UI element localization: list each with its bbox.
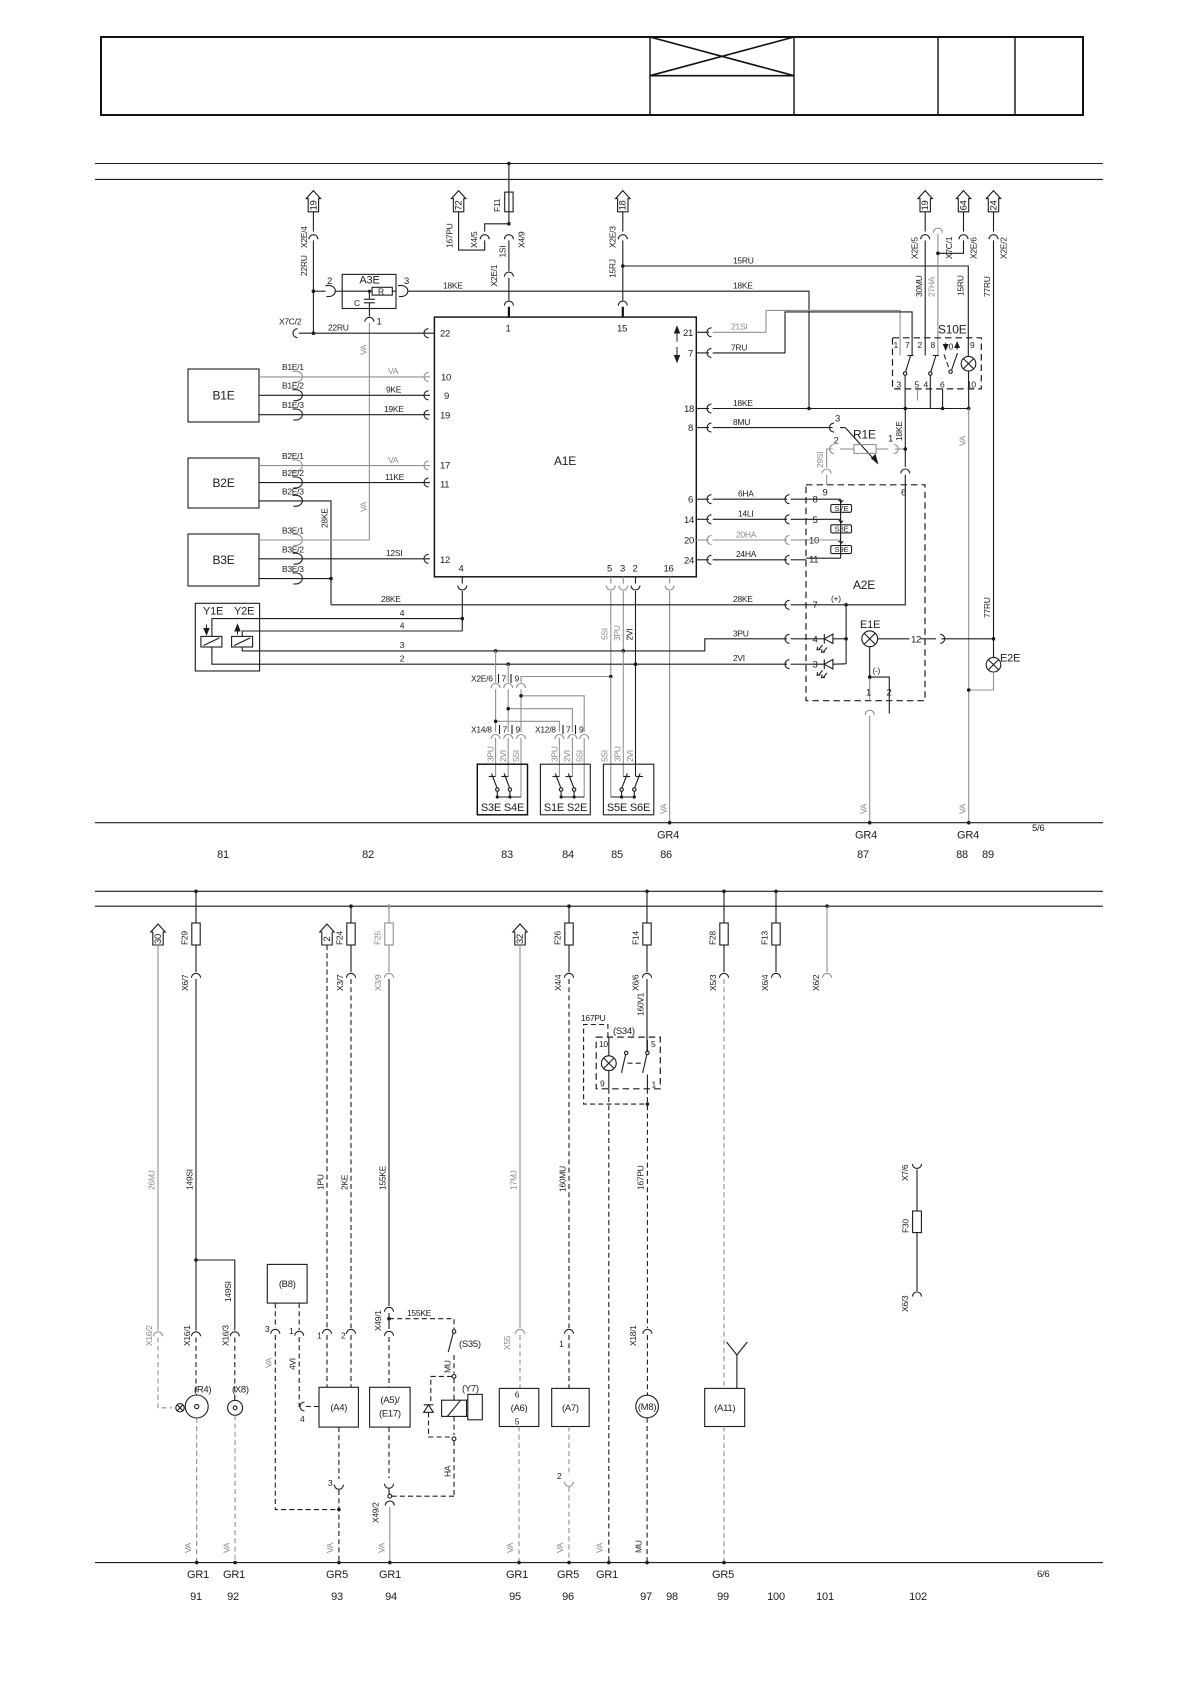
svg-text:VA: VA (377, 1542, 387, 1553)
control unit A5/E17 (370, 1387, 411, 1427)
wire 155KE (378, 979, 390, 1306)
svg-text:MU: MU (443, 1360, 453, 1373)
svg-text:S7E: S7E (835, 504, 849, 513)
svg-text:X6/7: X6/7 (180, 974, 190, 991)
control unit A7 (552, 1388, 590, 1426)
svg-text:X4/5: X4/5 (469, 231, 479, 248)
svg-text:15: 15 (617, 324, 627, 335)
svg-text:X49/2: X49/2 (371, 1502, 381, 1523)
svg-text:87: 87 (857, 849, 869, 861)
svg-text:GR1: GR1 (187, 1569, 209, 1581)
svg-text:MU: MU (634, 1540, 644, 1553)
svg-text:1: 1 (289, 1326, 294, 1336)
svg-text:7: 7 (566, 725, 571, 735)
svg-text:30MU: 30MU (914, 275, 924, 297)
top supply rail 1 (95, 163, 1103, 165)
svg-text:9: 9 (444, 391, 449, 402)
svg-text:S9E: S9E (835, 545, 849, 554)
wire X2E/5 30MU to S10E pin 2 (910, 212, 930, 356)
svg-text:8MU: 8MU (733, 417, 750, 427)
switch S2E contact (566, 774, 576, 798)
A1E pin 21 with arrow (675, 327, 712, 342)
svg-text:(-): (-) (873, 666, 881, 676)
svg-text:X12/8: X12/8 (535, 725, 556, 735)
svg-text:X4/4: X4/4 (553, 974, 563, 991)
wire 17MJ to A6 (502, 945, 525, 1388)
A1E pin 18 (684, 404, 712, 415)
control unit A11 (705, 1388, 745, 1426)
potentiometer R1E (830, 414, 906, 464)
svg-text:GR5: GR5 (712, 1569, 734, 1581)
sensor B1E (188, 369, 259, 422)
svg-text:B1E/2: B1E/2 (282, 381, 304, 391)
svg-text:11: 11 (440, 480, 449, 491)
svg-text:3: 3 (835, 414, 840, 425)
svg-text:X7C/1: X7C/1 (944, 236, 954, 259)
wire B2E/3 28KE down (259, 486, 331, 604)
svg-text:E1E: E1E (860, 619, 880, 631)
Y7 bottom node (452, 1437, 456, 1441)
svg-text:0: 0 (949, 342, 954, 352)
svg-text:77RU: 77RU (982, 597, 992, 618)
B8 pin 1 stub to A4 pin 4 (288, 1303, 304, 1406)
svg-text:167PU: 167PU (445, 223, 455, 248)
svg-text:77RU: 77RU (982, 276, 992, 297)
wire B2E/2 11KE to pin 11 (259, 468, 430, 488)
resistor R inside A3E (342, 287, 396, 297)
title block frame (101, 37, 1083, 115)
svg-text:X16/2: X16/2 (144, 1325, 154, 1346)
svg-text:83: 83 (501, 849, 513, 861)
svg-text:1: 1 (559, 1339, 564, 1349)
svg-text:29SI: 29SI (815, 452, 825, 468)
diode across Y7 (424, 1376, 452, 1437)
svg-text:5SI: 5SI (511, 750, 521, 762)
wire HA down to X49/2 node (391, 1441, 454, 1497)
svg-text:R: R (378, 287, 384, 297)
fuse F30 column (900, 1164, 922, 1312)
wire 18KE vertical to A2E pin 6 (894, 409, 910, 485)
svg-text:2VI: 2VI (625, 750, 635, 762)
connector X2E/6 labels (471, 674, 520, 684)
svg-text:5: 5 (651, 1039, 656, 1049)
svg-text:F30: F30 (901, 1219, 911, 1233)
svg-text:15RU: 15RU (733, 256, 754, 266)
svg-text:2VI: 2VI (498, 750, 508, 762)
svg-text:93: 93 (331, 1591, 343, 1603)
svg-text:6: 6 (940, 379, 945, 389)
svg-text:B2E: B2E (212, 476, 234, 490)
svg-text:3PU: 3PU (612, 625, 622, 641)
control unit A6 (499, 1388, 539, 1426)
capacitor C inside A3E (354, 290, 375, 317)
svg-text:3: 3 (813, 659, 818, 670)
svg-text:96: 96 (562, 1591, 574, 1603)
svg-text:155KE: 155KE (407, 1308, 432, 1318)
wire to A1E pin 1 (508, 278, 510, 300)
svg-text:(Y7): (Y7) (462, 1384, 479, 1395)
wire 18KE from A3E to right (408, 291, 809, 408)
A1E pin 16 bottom / wire VA (659, 564, 675, 823)
svg-text:22RU: 22RU (328, 323, 349, 333)
svg-text:4: 4 (300, 1414, 305, 1424)
svg-text:B1E: B1E (212, 389, 234, 403)
A2E pin 4 LED (806, 634, 846, 652)
svg-text:S10E: S10E (938, 323, 967, 337)
wire X6/2 (811, 904, 832, 991)
svg-text:88: 88 (956, 849, 968, 861)
A1E pin 2 bottom / wire 2VI (625, 564, 641, 665)
svg-text:92: 92 (227, 1591, 239, 1603)
svg-text:X2E/3: X2E/3 (608, 226, 618, 248)
earth rail section 5/6 (95, 822, 1103, 824)
thermal switch S8E (831, 520, 852, 534)
svg-text:100: 100 (767, 1591, 785, 1603)
A1E pin 20 (684, 536, 712, 547)
junction A3E pin2 branch (312, 289, 316, 293)
ECU A1E (434, 317, 696, 577)
svg-text:VA: VA (264, 1357, 274, 1368)
svg-text:2: 2 (322, 936, 333, 941)
S5E/S6E common bar (611, 795, 636, 798)
connector X3/9 (373, 973, 394, 991)
lamp E1E (860, 619, 880, 647)
A1E pin 7 with arrow (675, 347, 712, 362)
svg-text:5/6: 5/6 (1032, 823, 1044, 834)
svg-text:14LI: 14LI (738, 509, 753, 519)
wire 4 (Y1E top) (212, 608, 462, 636)
svg-text:F14: F14 (631, 931, 641, 945)
svg-text:3: 3 (620, 564, 625, 575)
wire B3E/3 to 28KE vertical (259, 564, 333, 584)
A6 earth wire (505, 1427, 519, 1563)
svg-text:4VI: 4VI (288, 1358, 298, 1370)
svg-text:19KE: 19KE (384, 404, 404, 414)
wire dashed to R4 (195, 1338, 197, 1396)
page arrow 72 (451, 191, 465, 212)
svg-text:2: 2 (834, 436, 839, 447)
svg-text:X5/3: X5/3 (708, 974, 718, 991)
svg-text:A3E: A3E (359, 275, 379, 287)
svg-text:4: 4 (400, 608, 405, 618)
svg-text:18: 18 (684, 404, 694, 415)
svg-text:C: C (354, 298, 360, 308)
svg-text:3PU: 3PU (550, 746, 560, 762)
svg-text:1: 1 (894, 340, 899, 350)
svg-text:GR4: GR4 (957, 830, 979, 842)
svg-text:2KE: 2KE (340, 1174, 350, 1190)
top supply rail 2 (95, 178, 1103, 180)
A1E pin 3 bottom / wire 3PU (612, 564, 628, 652)
svg-text:4: 4 (813, 634, 818, 645)
svg-text:(S35): (S35) (459, 1339, 481, 1350)
S10E top pin labels (894, 340, 976, 350)
svg-text:10: 10 (809, 536, 819, 547)
current path numbers 81-89 (217, 849, 994, 861)
svg-text:5: 5 (813, 515, 818, 526)
junction below S34 (646, 1102, 650, 1106)
svg-text:19: 19 (920, 201, 931, 211)
svg-text:3PU: 3PU (733, 628, 749, 638)
svg-text:167PU: 167PU (636, 1165, 646, 1190)
earth junction dots (195, 1561, 726, 1565)
svg-text:1: 1 (506, 324, 511, 335)
svg-text:5SI: 5SI (600, 750, 610, 762)
fuse F13 (760, 890, 781, 973)
section 6/6 supply rail 1 (95, 890, 1103, 892)
svg-text:4: 4 (924, 379, 929, 389)
svg-text:S3E S4E: S3E S4E (481, 802, 524, 814)
svg-text:2: 2 (327, 276, 332, 287)
wire 5SI into S5E/S6E (610, 677, 612, 798)
svg-text:6HA: 6HA (738, 489, 754, 499)
svg-text:X49/1: X49/1 (373, 1310, 383, 1331)
svg-text:(R4): (R4) (194, 1385, 211, 1396)
svg-text:X2E/6: X2E/6 (471, 674, 493, 684)
svg-text:Y2E: Y2E (234, 606, 254, 618)
wire labels third group (600, 746, 636, 762)
E1E minus node pins 1 2 (866, 647, 892, 701)
svg-text:9: 9 (516, 725, 521, 735)
svg-text:28KE: 28KE (320, 508, 330, 528)
svg-text:2: 2 (633, 564, 638, 575)
connector X7C/1 (933, 228, 954, 259)
svg-text:F25: F25 (373, 931, 383, 945)
valve Y2E coil (232, 625, 253, 648)
svg-text:B3E/3: B3E/3 (282, 564, 304, 574)
svg-text:4: 4 (400, 620, 405, 630)
svg-text:VA: VA (388, 366, 399, 376)
wire B3E/1 to VA vertical (259, 526, 369, 546)
svg-text:1: 1 (317, 1331, 322, 1341)
svg-text:81: 81 (217, 849, 229, 861)
svg-text:2VI: 2VI (733, 653, 745, 663)
svg-text:2: 2 (918, 340, 923, 350)
svg-text:20: 20 (684, 536, 694, 547)
svg-text:160MU: 160MU (558, 1166, 568, 1192)
svg-text:B2E/1: B2E/1 (282, 451, 304, 461)
svg-text:12: 12 (911, 634, 921, 645)
svg-text:X16/1: X16/1 (182, 1325, 192, 1346)
svg-text:1: 1 (888, 434, 893, 445)
svg-text:12: 12 (440, 555, 450, 566)
junction 77RU / pin12 (992, 637, 996, 641)
svg-text:3PU: 3PU (613, 746, 623, 762)
thermal switch S7E (831, 500, 852, 513)
svg-text:Y1E: Y1E (203, 606, 223, 618)
connector 3 (A3E right) (398, 285, 408, 296)
svg-text:B2E/2: B2E/2 (282, 468, 304, 478)
fuse F25 (373, 904, 394, 972)
S10E contact 7-3 (903, 356, 913, 409)
connector 2 (A3E) (326, 285, 336, 296)
svg-text:95: 95 (509, 1591, 521, 1603)
svg-text:91: 91 (190, 1591, 202, 1603)
svg-text:2: 2 (557, 1471, 562, 1481)
svg-text:9KE: 9KE (386, 385, 402, 395)
svg-text:3: 3 (404, 276, 409, 287)
A5/E17 bottom to X49/2 (371, 1427, 395, 1563)
svg-text:99: 99 (717, 1591, 729, 1603)
svg-text:82: 82 (362, 849, 374, 861)
wire VA from A3E pin1 down to B3E/1 (368, 323, 370, 540)
switch S10E box (893, 323, 982, 389)
svg-text:28KE: 28KE (733, 594, 753, 604)
connector X4/5 (480, 235, 489, 240)
svg-text:X7C/2: X7C/2 (279, 317, 302, 327)
svg-text:3: 3 (897, 379, 902, 389)
svg-text:9: 9 (579, 725, 584, 735)
valve Y1E coil (201, 625, 222, 648)
wire 14LI to A2E pin 5 (713, 509, 806, 524)
control unit A3E (342, 274, 396, 308)
S10E contact 8-4 (929, 356, 943, 409)
S34 switch contacts (622, 1040, 650, 1089)
svg-text:21SI: 21SI (731, 322, 747, 332)
svg-text:X6/2: X6/2 (811, 974, 821, 991)
sender X8 (228, 1385, 249, 1416)
svg-text:VA: VA (359, 501, 369, 512)
svg-text:15RU: 15RU (956, 275, 966, 296)
svg-text:(A7): (A7) (562, 1403, 579, 1414)
svg-text:149SI: 149SI (185, 1169, 195, 1190)
svg-text:9: 9 (600, 1079, 605, 1089)
svg-text:GR1: GR1 (506, 1569, 528, 1581)
switch S1E contact (553, 774, 563, 798)
svg-text:F29: F29 (180, 931, 190, 945)
svg-text:3PU: 3PU (486, 746, 496, 762)
switch box S3E S4E (477, 764, 527, 815)
A1E pin 4 bottom (458, 564, 467, 632)
svg-text:X7/6: X7/6 (900, 1164, 910, 1181)
svg-text:21: 21 (683, 328, 693, 339)
svg-text:X2E/2: X2E/2 (999, 237, 1009, 259)
title block crossed cell (650, 37, 794, 76)
A1E pin 24 (684, 555, 712, 566)
svg-text:5SI: 5SI (575, 750, 585, 762)
A1E pin 14 (684, 515, 712, 526)
svg-text:26MJ: 26MJ (147, 1170, 157, 1190)
wire X2E/6 from 64 (938, 212, 979, 259)
wire 155KE into A5 (385, 1331, 394, 1387)
svg-text:5: 5 (515, 1417, 520, 1427)
svg-text:160V1: 160V1 (636, 992, 646, 1016)
svg-text:1: 1 (652, 1080, 657, 1090)
switch S34 dashed box (596, 1026, 660, 1090)
wire B3E/2 12SI to pin 12 (259, 544, 430, 564)
svg-text:VA: VA (555, 1542, 565, 1553)
A1E pin 8 (688, 423, 712, 434)
junction 2VI wires (506, 662, 510, 666)
svg-text:X6/6: X6/6 (631, 974, 641, 991)
svg-text:X18/1: X18/1 (628, 1325, 638, 1346)
svg-text:X6/4: X6/4 (760, 974, 770, 991)
switch S4E contact (501, 774, 511, 798)
svg-text:B2E/3: B2E/3 (282, 486, 304, 496)
connector X12/8 (535, 725, 589, 763)
wire 7RU to S10E (713, 312, 912, 356)
page arrow 32 (513, 924, 527, 945)
wire 4 (Y2E top) (242, 620, 462, 636)
fuse F14 (631, 890, 652, 973)
fuse F26 (553, 904, 574, 972)
sensor B2E (188, 458, 259, 508)
wire 3 (Y2E bottom to 3PU) (242, 628, 806, 651)
sensor B3E (188, 534, 259, 586)
svg-text:GR4: GR4 (855, 830, 877, 842)
svg-text:(X8): (X8) (232, 1385, 249, 1396)
connector X4/9 (504, 235, 513, 240)
wire 20HA to A2E pin 10 (713, 529, 806, 544)
svg-text:GR1: GR1 (379, 1569, 401, 1581)
svg-text:8: 8 (813, 495, 818, 506)
S10E selector mechanism (944, 353, 958, 373)
svg-text:(+): (+) (831, 594, 841, 604)
svg-text:S5E S6E: S5E S6E (607, 802, 650, 814)
wire 167PU loop around S34 (581, 1013, 646, 1104)
svg-text:X4/9: X4/9 (517, 231, 527, 248)
svg-text:(A4): (A4) (330, 1403, 347, 1414)
svg-text:2VI: 2VI (625, 629, 635, 641)
wire 1SI (508, 240, 510, 270)
wire VA from S10E pin10 to earth rail (958, 409, 969, 823)
svg-text:B1E/1: B1E/1 (282, 362, 304, 372)
connector X3/7 (335, 973, 356, 991)
svg-text:VA: VA (958, 803, 968, 814)
gauge R4 with lamp (176, 1385, 212, 1419)
svg-text:1SI: 1SI (498, 246, 508, 258)
svg-text:97: 97 (640, 1591, 652, 1603)
wire X8 to earth (234, 1415, 236, 1562)
svg-text:F13: F13 (760, 931, 770, 945)
junction 3PU wires (494, 649, 498, 653)
junction below F11 (507, 222, 511, 226)
switch S6E contact (633, 774, 643, 798)
S10E pin 5 stub (917, 389, 919, 401)
wire 160V1 to S34 pin 5 (636, 979, 648, 1052)
wire 2VI into S5E/S6E (635, 664, 637, 776)
connector X2E/6 arcs (491, 684, 525, 689)
svg-text:VA: VA (325, 1542, 335, 1553)
wire 22RU to pin 22 (299, 332, 430, 334)
svg-text:7: 7 (688, 349, 693, 360)
svg-text:5: 5 (915, 379, 920, 389)
svg-text:S8E: S8E (835, 525, 849, 534)
svg-text:X2E/6: X2E/6 (969, 237, 979, 259)
svg-text:85: 85 (611, 849, 623, 861)
svg-text:B3E: B3E (212, 553, 234, 567)
S10E bottom pin labels (897, 379, 977, 389)
wire 18KE pin18 run (713, 408, 969, 410)
junction pin4 / wire 4 (461, 617, 465, 621)
svg-text:2: 2 (400, 654, 405, 664)
svg-text:10: 10 (441, 373, 451, 384)
current path numbers 91-102 (190, 1591, 927, 1603)
svg-text:5: 5 (607, 564, 612, 575)
svg-text:(S34): (S34) (613, 1026, 635, 1037)
page arrow 18 (616, 191, 630, 212)
svg-text:84: 84 (562, 849, 574, 861)
wire R4 to earth (196, 1418, 198, 1563)
wire 167PU from S34 pin 1 to M8 (628, 1089, 652, 1396)
svg-text:GR5: GR5 (326, 1569, 348, 1581)
svg-text:7: 7 (905, 340, 910, 350)
svg-text:17MJ: 17MJ (509, 1170, 519, 1190)
svg-text:22: 22 (440, 329, 450, 340)
wire S34 pin 9 to earth (595, 1089, 609, 1563)
connector 1 (A3E bottom) (365, 317, 374, 322)
connector X6/6 (631, 973, 652, 991)
